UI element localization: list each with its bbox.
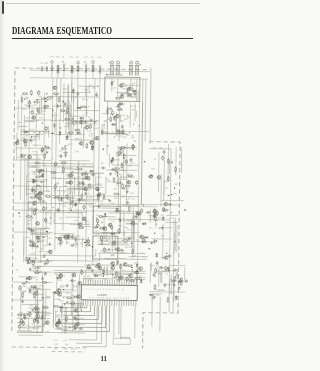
wire: [117, 130, 149, 132]
diode D23: [55, 322, 60, 325]
transistor Q68: [34, 318, 38, 321]
wire: [46, 231, 48, 246]
capacitor C81: [113, 116, 116, 121]
junction: [41, 182, 43, 183]
wire: [35, 113, 37, 147]
svg-text:220: 220: [82, 164, 86, 166]
junction: [69, 327, 72, 328]
diode D25: [59, 306, 64, 309]
electrolytic capacitor C92: [132, 144, 135, 149]
pin 1: [82, 279, 84, 305]
wire: [92, 72, 94, 79]
wire: [73, 96, 75, 103]
capacitor C108: [137, 211, 140, 216]
wire: [59, 78, 62, 120]
resistor R107: [127, 265, 133, 267]
junction: [156, 224, 157, 225]
svg-text:T12: T12: [57, 167, 62, 169]
wire: [55, 312, 57, 322]
wire: [119, 147, 131, 149]
wire: [92, 216, 94, 228]
junction: [133, 124, 134, 125]
wire: [88, 85, 90, 93]
svg-text:T46: T46: [72, 124, 77, 126]
wire: [43, 181, 45, 190]
svg-text:47u: 47u: [92, 88, 96, 90]
capacitor C_tops: [46, 66, 47, 71]
wire: [75, 172, 104, 174]
wire: [79, 85, 98, 87]
resistor R101: [101, 235, 103, 241]
wire: [25, 175, 27, 196]
wire: [62, 91, 90, 93]
diode D1: [132, 90, 137, 93]
diode D6: [40, 169, 45, 172]
junction: [37, 331, 38, 334]
electrolytic capacitor body 5: [77, 61, 80, 64]
svg-text:C5: C5: [85, 113, 89, 115]
amp block box: [93, 206, 120, 233]
electrolytic capacitor C67: [96, 223, 99, 228]
wire: [38, 170, 50, 172]
diode D28: [111, 157, 114, 162]
junction: [113, 264, 115, 267]
wire: [170, 274, 172, 294]
svg-text:R65: R65: [23, 286, 28, 288]
wire: [176, 225, 178, 252]
pin 23: [135, 280, 137, 306]
junction: [144, 160, 145, 163]
junction: [63, 289, 64, 290]
junction: [45, 93, 48, 94]
junction: [92, 70, 93, 71]
resistor R35: [42, 282, 48, 284]
electrolytic capacitor C56: [88, 183, 91, 188]
svg-text:10K: 10K: [41, 326, 45, 328]
electrolytic capacitor C27: [44, 218, 47, 223]
wire: [102, 198, 109, 200]
transistor Q52: [153, 210, 157, 213]
ground: [178, 280, 181, 283]
capacitor C117: [163, 283, 166, 288]
diode D37: [136, 263, 139, 268]
capacitor C47: [64, 153, 67, 158]
capacitor C118: [153, 272, 156, 277]
capacitor C3: [38, 110, 41, 115]
resistor R90: [121, 163, 123, 169]
svg-text:T62: T62: [127, 230, 132, 232]
resistor R8: [43, 105, 49, 107]
resistor R26: [36, 290, 38, 296]
wire: [19, 334, 43, 336]
junction: [30, 136, 33, 138]
svg-text:C15: C15: [48, 238, 53, 240]
wire: [92, 63, 94, 65]
wire: [17, 331, 43, 333]
resistor R21: [25, 257, 31, 259]
svg-text:0.047: 0.047: [70, 301, 76, 303]
wire: [118, 101, 120, 141]
svg-text:T61: T61: [35, 279, 40, 281]
electrolytic capacitor C112: [162, 155, 165, 160]
electrolytic capacitor C111: [126, 277, 129, 282]
top scan line: [6, 3, 200, 4]
junction: [119, 220, 122, 222]
capacitor C7: [42, 97, 47, 100]
wire: [58, 322, 63, 324]
svg-text:1K: 1K: [63, 192, 66, 194]
svg-text:4.7K: 4.7K: [87, 131, 92, 133]
svg-text:100: 100: [39, 300, 43, 302]
resistor R84: [113, 193, 119, 195]
transistor Q64: [156, 176, 160, 179]
svg-text:47u: 47u: [149, 228, 153, 230]
wire: [101, 216, 115, 218]
wire: [121, 306, 130, 340]
capacitor C124: [159, 266, 164, 269]
transistor Q44: [115, 114, 119, 117]
junction: [71, 70, 72, 71]
wire: [106, 144, 108, 155]
svg-text:100: 100: [45, 190, 49, 192]
resistor R33: [18, 321, 24, 323]
capacitor C_top8: [99, 65, 101, 73]
junction: [37, 269, 38, 272]
wire: [84, 216, 86, 224]
junction: [154, 213, 155, 216]
wire: [124, 84, 139, 86]
transistor Q27: [86, 176, 90, 179]
wire: [17, 317, 43, 319]
wire: [132, 206, 135, 259]
wire: [55, 328, 68, 330]
resistor R89: [113, 177, 115, 183]
wire: [161, 270, 163, 283]
wire: [54, 291, 71, 293]
svg-text:D13: D13: [55, 115, 60, 117]
wire: [36, 99, 52, 101]
transistor Q29: [68, 181, 72, 184]
wire: [167, 144, 169, 181]
svg-text:220: 220: [176, 275, 180, 277]
resistor R102: [135, 278, 141, 280]
wire: [20, 133, 43, 135]
junction: [45, 207, 48, 209]
resistor R46: [72, 117, 74, 123]
transistor Q67: [154, 212, 158, 215]
transistor Q16: [45, 321, 49, 324]
wire: [65, 307, 67, 333]
junction: [41, 122, 44, 123]
junction: [120, 108, 121, 109]
wire: [98, 244, 129, 246]
svg-text:T61: T61: [81, 115, 86, 117]
resistor R115: [155, 268, 157, 274]
wire: [58, 271, 75, 273]
svg-text:0.047: 0.047: [132, 96, 138, 98]
capacitor C29: [36, 266, 41, 269]
junction: [99, 71, 100, 72]
wire: [39, 185, 50, 187]
junction: [57, 199, 60, 200]
resistor R122: [23, 314, 29, 316]
junction: [171, 279, 172, 280]
svg-text:Q92: Q92: [107, 181, 112, 183]
svg-text:T90: T90: [173, 193, 178, 195]
wire: [115, 278, 145, 280]
wire: [119, 263, 121, 280]
svg-text:VOL TONE BAL MUTE PWR: VOL TONE BAL MUTE PWR: [89, 296, 130, 300]
resistor R92: [98, 216, 104, 218]
ground: [45, 150, 48, 153]
transistor Q17: [27, 276, 31, 279]
junction: [116, 175, 119, 176]
wire: [71, 275, 73, 315]
wire: [77, 163, 79, 187]
electrolytic capacitor C46: [89, 124, 92, 129]
resistor R105: [95, 266, 101, 268]
svg-text:33K: 33K: [43, 149, 47, 151]
wire: [129, 256, 148, 258]
wire: [39, 229, 41, 262]
svg-text:Q6: Q6: [91, 57, 95, 59]
wire: [160, 174, 162, 207]
ground: [74, 203, 77, 206]
ground: [97, 205, 100, 208]
electrolytic capacitor C77: [80, 270, 83, 275]
junction: [108, 62, 111, 63]
wire: [181, 147, 183, 173]
transistor Q45: [126, 180, 130, 183]
svg-text:1K: 1K: [153, 159, 156, 161]
capacitor C43: [59, 154, 62, 159]
wire: [175, 147, 177, 175]
svg-text:T52: T52: [130, 193, 135, 195]
junction: [64, 145, 67, 147]
electrolytic capacitor C34: [19, 285, 22, 290]
svg-text:1K: 1K: [58, 178, 61, 180]
wire: [77, 78, 79, 108]
wire: [54, 270, 146, 271]
transistor Q53: [130, 222, 134, 225]
junction: [155, 240, 158, 241]
capacitor C15: [39, 175, 44, 178]
wire: [119, 176, 134, 178]
resistor R66: [66, 297, 72, 299]
junction: [49, 217, 52, 218]
wire: [34, 186, 36, 196]
wire: [149, 68, 152, 144]
transistor Q39: [77, 282, 81, 285]
svg-text:Q75: Q75: [113, 278, 118, 280]
svg-text:1K: 1K: [132, 150, 135, 152]
wire: [34, 265, 44, 267]
transistor Q25: [79, 120, 83, 123]
resistor R27: [17, 314, 23, 316]
wire: [78, 181, 80, 196]
svg-text:220: 220: [54, 348, 58, 350]
wire: [78, 199, 85, 201]
svg-text:220: 220: [151, 299, 155, 301]
svg-text:47u: 47u: [132, 199, 136, 201]
wire: [98, 240, 158, 243]
junction: [184, 209, 186, 210]
svg-text:0.047: 0.047: [67, 176, 73, 178]
wire: [103, 218, 105, 242]
resistor R62: [67, 234, 69, 240]
wire: [135, 111, 137, 117]
capacitor C10: [16, 138, 19, 143]
diode D18: [66, 135, 69, 140]
wire: [61, 167, 73, 169]
svg-text:10K: 10K: [22, 138, 26, 140]
resistor R34: [21, 318, 23, 324]
capacitor C84: [119, 102, 122, 107]
junction: [28, 174, 29, 175]
ground: [126, 190, 129, 193]
resistor R109: [86, 267, 92, 269]
wire: [155, 270, 167, 272]
wire: [173, 233, 175, 255]
wire: [57, 73, 59, 78]
svg-text:100: 100: [127, 212, 131, 214]
junction: [45, 101, 47, 102]
wire: [13, 202, 93, 205]
wire: [84, 277, 113, 279]
svg-text:0.01: 0.01: [122, 170, 127, 172]
svg-text:33K: 33K: [174, 184, 178, 186]
pin 16: [118, 280, 120, 306]
wire: [71, 78, 73, 100]
wire: [101, 231, 139, 233]
junction: [34, 154, 37, 155]
resistor R65: [73, 296, 79, 298]
junction: [151, 174, 153, 177]
wire: [85, 191, 88, 263]
diode D35: [94, 274, 99, 277]
transistor Q66: [163, 256, 167, 259]
capacitor C41: [63, 151, 68, 154]
resistor R39: [67, 107, 69, 113]
diode D7: [35, 185, 40, 188]
electrolytic capacitor C58: [83, 205, 86, 210]
resistor R70: [60, 306, 62, 312]
wire: [63, 305, 98, 320]
wire: [149, 148, 171, 150]
svg-text:47u: 47u: [70, 57, 74, 59]
wire: [31, 205, 33, 234]
diode D36: [116, 260, 119, 265]
svg-text:T6: T6: [116, 264, 119, 266]
resistor R114: [155, 216, 157, 222]
svg-text:2SC: 2SC: [34, 138, 39, 140]
resistor R20: [29, 258, 31, 264]
resistor R23: [29, 245, 35, 247]
svg-text:0.047: 0.047: [156, 273, 162, 275]
wire: [77, 64, 79, 66]
svg-text:0.01: 0.01: [54, 340, 59, 342]
svg-text:4.7K: 4.7K: [131, 106, 136, 108]
resistor R30: [33, 293, 35, 299]
diode D32: [110, 232, 115, 235]
capacitor C9: [41, 148, 44, 153]
wire: [37, 288, 39, 305]
svg-text:D10: D10: [32, 174, 37, 176]
wire: [84, 264, 118, 266]
resistor R74: [122, 129, 124, 135]
resistor R99: [128, 205, 130, 211]
wire: [72, 88, 75, 132]
svg-text:220: 220: [57, 314, 61, 316]
electrolytic capacitor C94: [118, 151, 121, 156]
resistor R24: [26, 216, 32, 218]
wire: [99, 253, 101, 261]
junction: [77, 167, 78, 168]
wire: [133, 214, 135, 239]
pin 20: [128, 280, 130, 306]
output jack J176: [172, 280, 174, 282]
wire: [115, 173, 122, 175]
transistor Q70: [56, 321, 60, 324]
resistor R91: [125, 185, 131, 187]
wire: [27, 162, 94, 165]
capacitor C103: [146, 211, 151, 214]
wire: [66, 123, 97, 125]
wire: [29, 207, 36, 209]
junction: [59, 299, 60, 300]
capacitor C_top1: [51, 65, 53, 71]
wire: [65, 168, 77, 170]
svg-text:0.047: 0.047: [156, 267, 162, 269]
capacitor C39: [84, 119, 87, 124]
svg-text:Q57: Q57: [55, 344, 60, 346]
wire: [95, 249, 97, 256]
capacitor C45: [76, 92, 79, 97]
svg-text:4.7K: 4.7K: [105, 244, 110, 246]
resistor R36: [43, 307, 49, 309]
electrolytic capacitor C68: [96, 219, 99, 224]
capacitor C23: [29, 239, 32, 244]
wire: [159, 297, 161, 332]
wire: [78, 274, 80, 306]
electrolytic capacitor body 7: [92, 61, 95, 64]
svg-text:0.01: 0.01: [36, 111, 41, 113]
transistor Q56: [110, 266, 114, 269]
ground: [126, 201, 129, 204]
junction: [26, 281, 27, 282]
svg-text:33K: 33K: [111, 255, 115, 257]
transistor Q41: [76, 295, 80, 298]
capacitor C59: [74, 202, 77, 207]
transistor Q34: [57, 237, 61, 240]
capacitor C125: [23, 317, 28, 320]
wire: [83, 275, 90, 277]
transistor Q21: [78, 142, 82, 145]
transistor Q58: [128, 274, 132, 277]
svg-text:2SC: 2SC: [164, 181, 169, 183]
capacitor C37: [23, 314, 26, 319]
svg-text:C66: C66: [59, 218, 64, 220]
wire: [32, 144, 41, 146]
junction: [26, 98, 29, 100]
svg-text:4.7K: 4.7K: [62, 206, 67, 208]
wire: [65, 111, 67, 134]
capacitor C106: [128, 236, 131, 241]
wire: [120, 92, 137, 94]
capacitor C21: [30, 241, 35, 244]
wire: [76, 305, 102, 343]
wire: [64, 306, 66, 333]
